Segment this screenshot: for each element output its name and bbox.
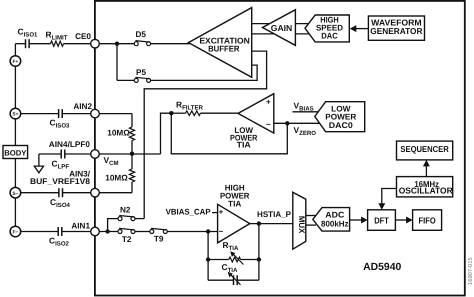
svg-text:VBIAS_CAP: VBIAS_CAP bbox=[166, 208, 212, 217]
block FIFO bbox=[413, 210, 442, 231]
BODY box bbox=[3, 146, 28, 159]
svg-text:CE0: CE0 bbox=[75, 32, 91, 41]
wire CE0 to D5 bbox=[99, 43, 134, 45]
svg-text:S+: S+ bbox=[12, 112, 18, 118]
terminal F&#8722; bbox=[10, 226, 21, 237]
svg-text:+: + bbox=[219, 208, 224, 217]
label AIN3/BUF_VREF1V8 bbox=[30, 169, 91, 186]
pin CE0 bbox=[91, 39, 100, 48]
wire VBIAS_CAP stub bbox=[212, 212, 218, 214]
amplifier GAIN bbox=[263, 10, 296, 46]
svg-text:−: − bbox=[219, 227, 224, 236]
AD5940 chip boundary bbox=[95, 1, 465, 296]
label AIN2 bbox=[73, 102, 92, 111]
wire RFILTER to TIA output bbox=[201, 112, 241, 114]
switch T2 bbox=[118, 228, 135, 244]
wire VCM bbox=[99, 153, 160, 155]
terminal F+ bbox=[10, 56, 21, 67]
pin VCM/AIN4 bbox=[91, 150, 100, 159]
capacitor CTIA variable bbox=[222, 262, 241, 285]
svg-text:AIN1: AIN1 bbox=[71, 221, 90, 230]
capacitor CISO1 bbox=[18, 27, 39, 49]
op-amp excitation buffer bbox=[188, 8, 251, 78]
node VCM junction bbox=[130, 152, 134, 156]
svg-text:10MΩ: 10MΩ bbox=[105, 173, 128, 182]
label CE0 bbox=[75, 32, 91, 41]
wire LPTIA feedback bbox=[171, 113, 287, 154]
label VBIAS bbox=[294, 101, 314, 113]
svg-text:S−: S− bbox=[12, 191, 18, 197]
wire OSC to DFT arrow bbox=[378, 189, 396, 210]
svg-text:SEQUENCER: SEQUENCER bbox=[400, 144, 449, 154]
wire VCM up to RFILTER node bbox=[161, 113, 172, 154]
wire divider mid bbox=[131, 141, 133, 154]
block 16MHz OSCILLATOR bbox=[397, 177, 454, 197]
svg-text:F−: F− bbox=[13, 230, 19, 236]
capacitor CISO2 bbox=[49, 227, 70, 248]
wire divider bottom to AIN3 bbox=[99, 182, 132, 193]
svg-text:DFT: DFT bbox=[374, 215, 389, 225]
svg-text:GAIN: GAIN bbox=[271, 23, 293, 33]
label VZERO bbox=[294, 125, 317, 137]
wire CE0 row bbox=[15, 43, 90, 45]
wire CE0 down to P5 bbox=[117, 44, 134, 81]
wire HSTIA output bbox=[250, 223, 293, 225]
wire WG to DAC arrow bbox=[350, 25, 369, 32]
svg-text:ADC: ADC bbox=[325, 210, 344, 219]
wire buffer-gain-dac upper bbox=[252, 23, 313, 25]
op-amp HIGH POWER TIA bbox=[218, 204, 250, 243]
block DFT bbox=[368, 210, 396, 231]
svg-text:HSTIA_P: HSTIA_P bbox=[257, 210, 292, 219]
pin AIN3 bbox=[91, 188, 100, 197]
terminal S+ bbox=[10, 108, 21, 119]
wire RTIA row bbox=[206, 257, 261, 261]
wire buffer-gain-dac lower bbox=[252, 33, 314, 35]
node HSTIA_P junction bbox=[257, 221, 261, 225]
wire N2 to feedback line bbox=[135, 218, 144, 220]
wire OSC to SEQ arrow bbox=[423, 160, 430, 177]
svg-text:10MΩ: 10MΩ bbox=[107, 129, 130, 138]
block WAVEFORM GENERATOR bbox=[368, 16, 424, 40]
node AIN1 junction bbox=[105, 229, 109, 233]
svg-text:T9: T9 bbox=[154, 234, 164, 243]
svg-text:T2: T2 bbox=[122, 235, 132, 244]
wire T9 to HPTIA bbox=[167, 231, 217, 233]
pin AIN1 bbox=[91, 227, 100, 236]
wire RFILTER left bbox=[171, 112, 185, 114]
wire divider top bbox=[131, 114, 133, 127]
wire S+ to AIN2 bbox=[21, 113, 91, 115]
block LOW POWER DAC0 bbox=[315, 102, 365, 132]
wire F- to AIN1 bbox=[21, 231, 91, 233]
svg-text:16907-015: 16907-015 bbox=[467, 257, 474, 285]
wire CLPF bbox=[39, 154, 91, 166]
svg-text:MUX: MUX bbox=[297, 216, 306, 234]
switch N2 bbox=[118, 205, 135, 220]
svg-text:N2: N2 bbox=[120, 205, 131, 214]
resistor 10M lower bbox=[105, 169, 134, 182]
capacitor CLPF bbox=[52, 150, 70, 171]
wire buffer inner feedback bbox=[144, 51, 266, 219]
wire T2 to T9 bbox=[135, 231, 150, 233]
label HSTIA_P bbox=[257, 210, 292, 219]
node HPTIA feedback junction bbox=[206, 229, 210, 233]
svg-text:800kHz: 800kHz bbox=[321, 220, 349, 229]
wire VZERO bbox=[274, 122, 320, 124]
watermark bbox=[467, 257, 474, 285]
svg-text:AIN2: AIN2 bbox=[73, 102, 92, 111]
svg-text:OSCILLATOR: OSCILLATOR bbox=[399, 186, 454, 196]
label AIN1 bbox=[71, 221, 90, 230]
block ADC 800kHz bbox=[313, 208, 350, 232]
svg-text:F+: F+ bbox=[13, 59, 19, 65]
wire feedback right vertical bbox=[258, 224, 260, 281]
svg-text:TIA: TIA bbox=[228, 200, 241, 209]
svg-text:DAC: DAC bbox=[321, 31, 338, 40]
wire VBIAS stub bbox=[293, 111, 321, 113]
op-amp LOW POWER TIA bbox=[230, 94, 274, 150]
wire P5 to buffer feedback bbox=[151, 65, 258, 80]
node LPTIA inverting input bbox=[285, 121, 289, 125]
switch T9 bbox=[150, 228, 168, 243]
svg-text:DAC0: DAC0 bbox=[329, 121, 353, 130]
svg-text:BUFFER: BUFFER bbox=[208, 44, 239, 54]
svg-text:+: + bbox=[266, 97, 271, 106]
label AIN4/LPF0 bbox=[49, 140, 91, 149]
wire ADC to DFT arrow bbox=[350, 217, 368, 224]
svg-text:FIFO: FIFO bbox=[419, 215, 436, 225]
resistor RTIA variable bbox=[223, 240, 244, 265]
capacitor CISO3 bbox=[50, 109, 71, 129]
wire N2 branch bbox=[108, 219, 118, 232]
wire S- to AIN3 bbox=[21, 192, 91, 194]
node CE0 junction bbox=[115, 42, 119, 46]
block HIGH SPEED DAC bbox=[305, 15, 349, 42]
label VBIAS_CAP bbox=[166, 208, 212, 217]
capacitor CISO4 bbox=[50, 188, 71, 209]
wire divider mid2 bbox=[131, 154, 133, 169]
svg-text:BODY: BODY bbox=[4, 148, 26, 157]
resistor RLIMIT bbox=[46, 30, 68, 47]
ground bbox=[34, 166, 43, 173]
node RFILTER junction bbox=[169, 111, 173, 115]
block SEQUENCER bbox=[397, 141, 453, 160]
svg-text:GENERATOR: GENERATOR bbox=[370, 26, 423, 36]
svg-text:D5: D5 bbox=[135, 30, 146, 39]
switch D5 bbox=[134, 30, 150, 46]
svg-text:BUF_VREF1V8: BUF_VREF1V8 bbox=[30, 177, 90, 186]
wire AIN1 row bbox=[99, 231, 118, 233]
wire feedback left vertical bbox=[207, 232, 209, 281]
svg-text:AIN4/LPF0: AIN4/LPF0 bbox=[49, 140, 91, 149]
wire DFT to FIFO arrow bbox=[395, 217, 412, 224]
multiplexer MUX bbox=[293, 192, 306, 249]
label VCM bbox=[104, 155, 119, 167]
resistor 10M upper bbox=[107, 127, 134, 141]
label HIGH POWER TIA bbox=[220, 183, 250, 208]
svg-text:AD5940: AD5940 bbox=[363, 262, 401, 273]
svg-text:−: − bbox=[266, 120, 271, 129]
pin AIN2 bbox=[91, 109, 100, 118]
wire MUX to ADC bbox=[306, 216, 316, 226]
svg-text:P5: P5 bbox=[136, 68, 146, 77]
label AD5940 bbox=[363, 262, 401, 273]
switch P5 bbox=[134, 68, 150, 83]
electrode bus wire bbox=[14, 44, 16, 232]
wire AIN2 to divider bbox=[99, 113, 132, 115]
terminal S&#8722; bbox=[10, 187, 21, 198]
resistor RFILTER bbox=[176, 100, 204, 116]
wire D5 to buffer bbox=[151, 43, 190, 45]
wire CTIA row bbox=[208, 279, 259, 281]
svg-text:TIA: TIA bbox=[237, 140, 251, 149]
